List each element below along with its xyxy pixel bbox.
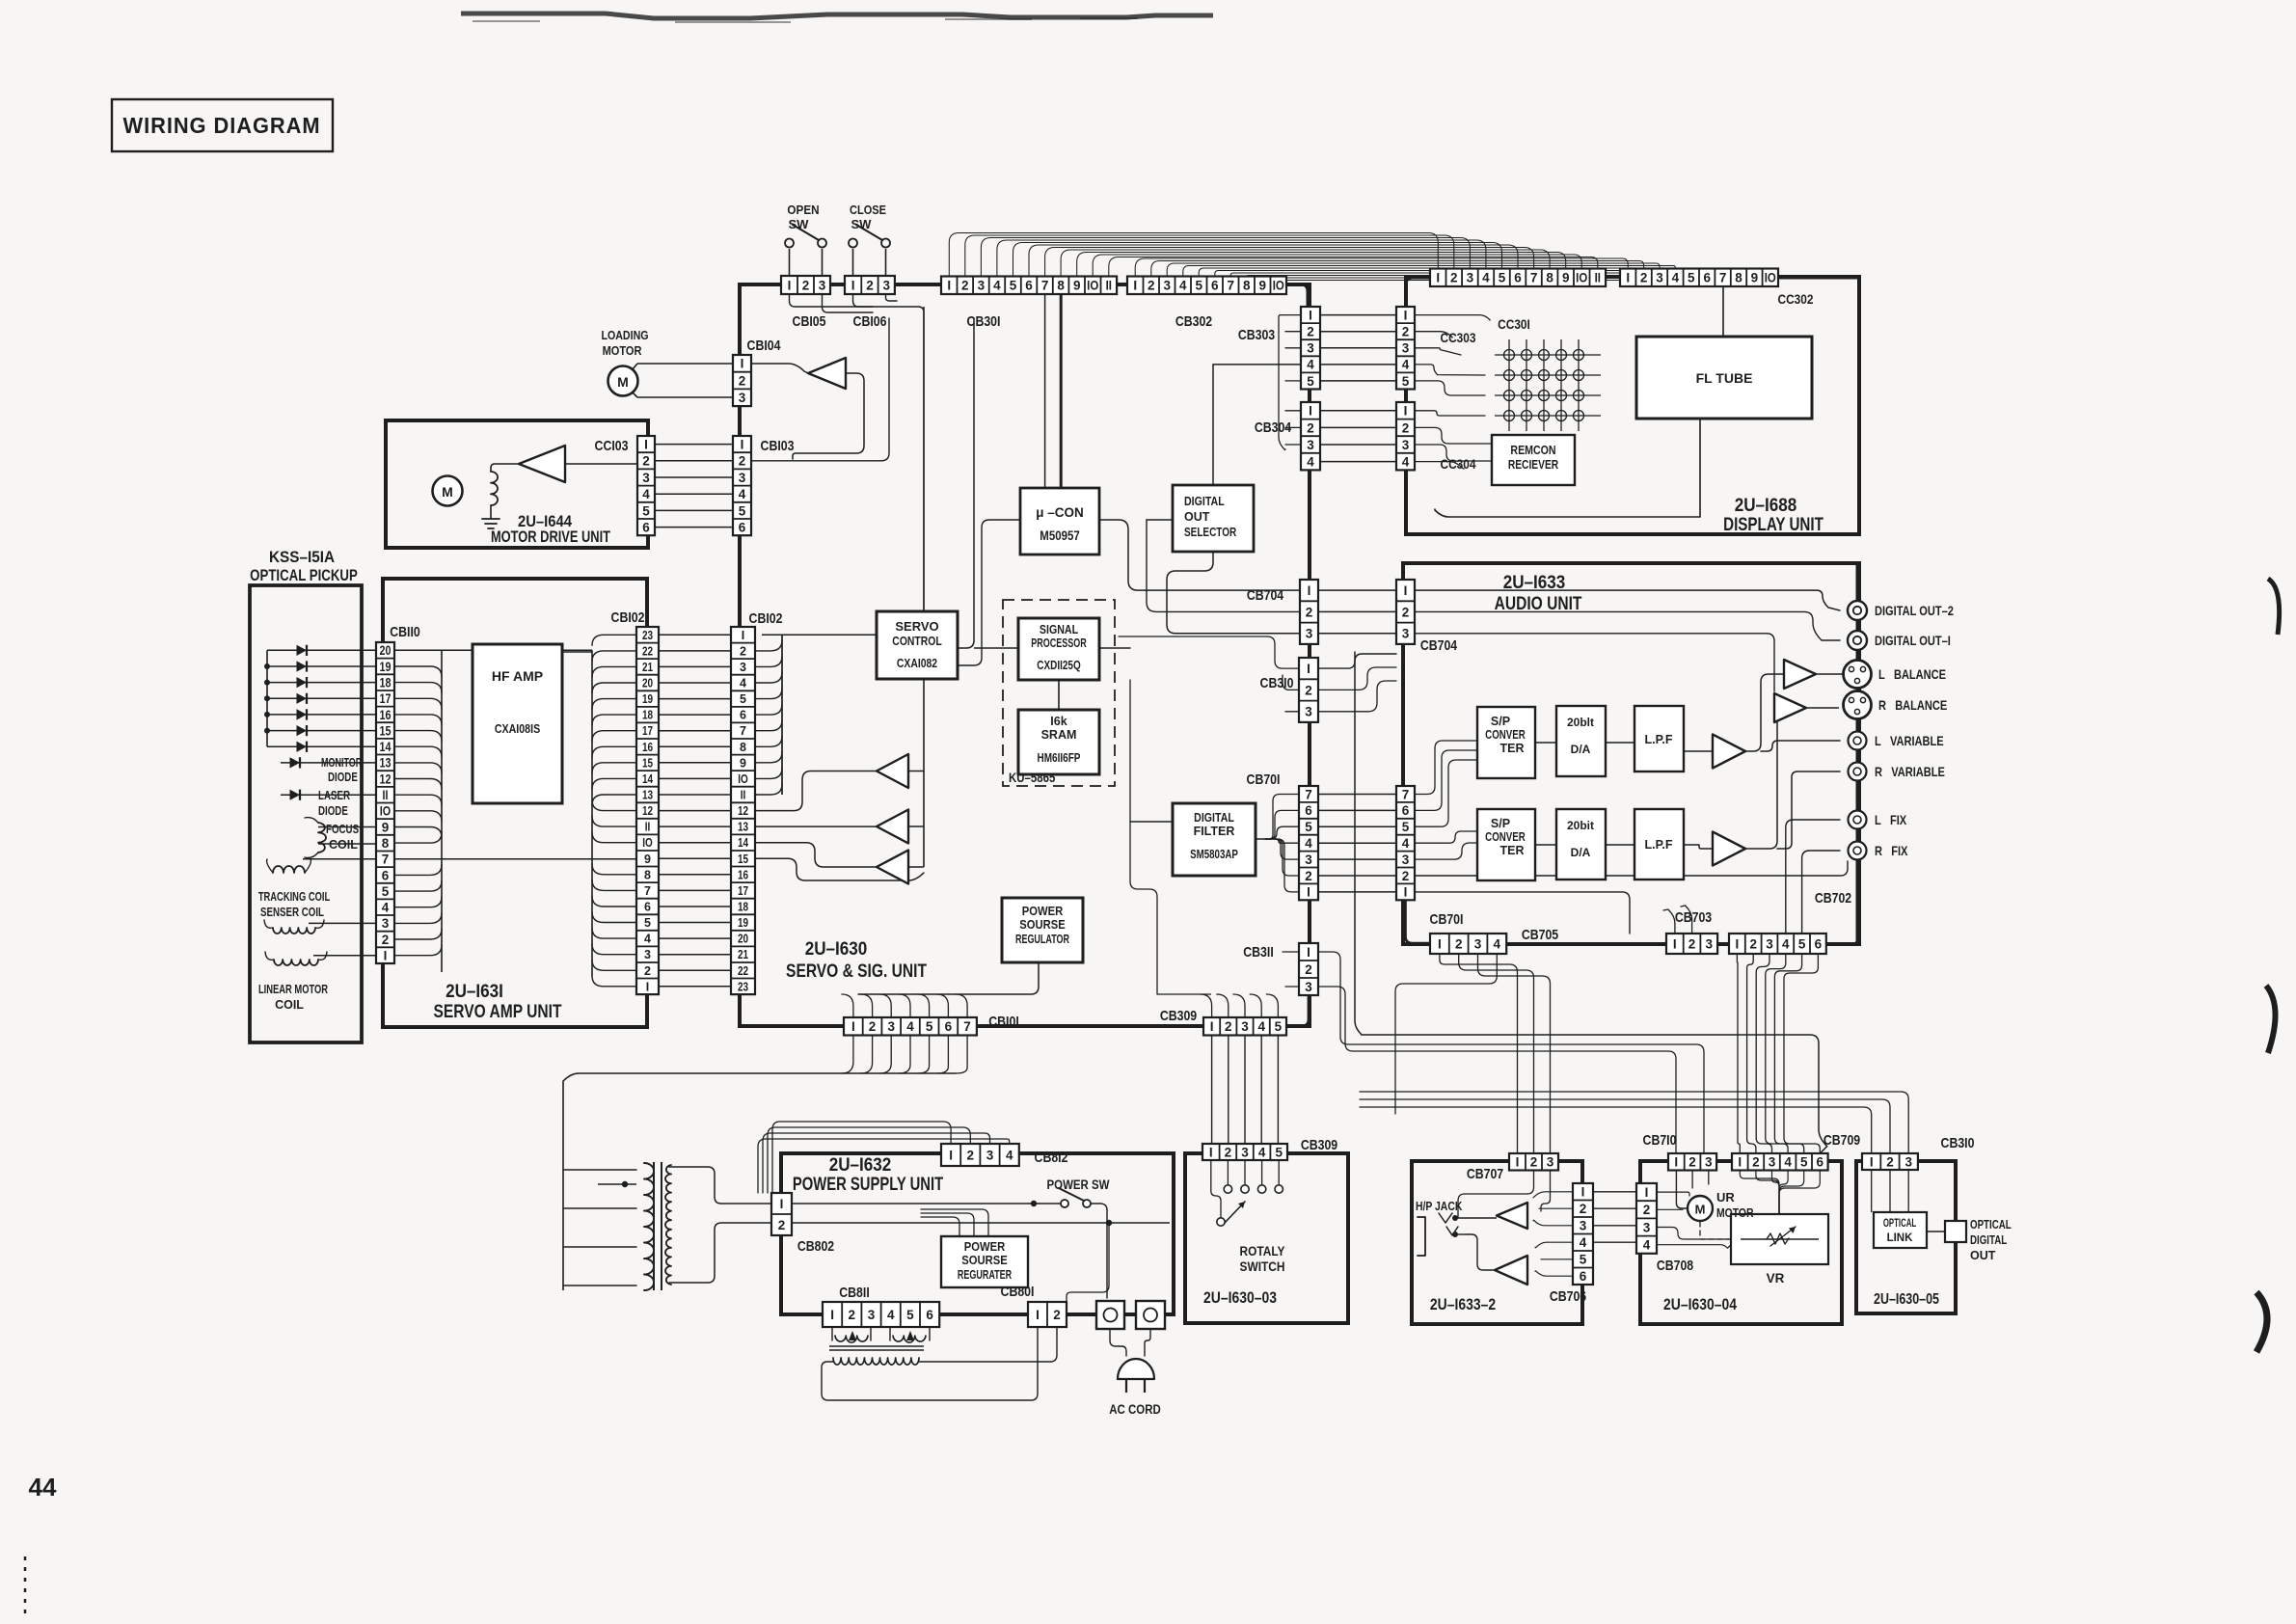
svg-text:DIGITAL OUT–I: DIGITAL OUT–I bbox=[1875, 634, 1951, 648]
svg-text:3: 3 bbox=[978, 279, 986, 293]
svg-text:12: 12 bbox=[379, 771, 391, 786]
svg-text:CB706: CB706 bbox=[1550, 1288, 1586, 1304]
servo triangle 3 bbox=[877, 851, 908, 884]
wire: CB102-right pins 1-11 bus to servo control bbox=[755, 635, 877, 795]
connector CB102 right bbox=[731, 627, 755, 994]
svg-text:6: 6 bbox=[945, 1019, 953, 1034]
svg-text:4: 4 bbox=[642, 487, 650, 501]
unit box 2U-1688 display unit bbox=[1406, 277, 1859, 534]
svg-text:I: I bbox=[741, 357, 744, 371]
svg-text:IO: IO bbox=[1273, 279, 1284, 293]
fuse holder 1 bbox=[1096, 1301, 1124, 1329]
svg-text:CB309: CB309 bbox=[1301, 1137, 1337, 1152]
svg-text:2: 2 bbox=[1580, 1202, 1587, 1216]
svg-text:2: 2 bbox=[1053, 1308, 1061, 1322]
svg-text:POWER: POWER bbox=[964, 1239, 1006, 1254]
wire: CC303 hooks into display bbox=[1415, 315, 1490, 395]
svg-text:DIGITAL: DIGITAL bbox=[1194, 811, 1234, 825]
svg-text:2: 2 bbox=[740, 644, 746, 658]
caption KSS-151A OPTICAL PICKUP bbox=[250, 548, 358, 584]
connector CB801 bbox=[1028, 1302, 1067, 1327]
svg-text:2: 2 bbox=[1306, 605, 1313, 619]
svg-text:IO: IO bbox=[1765, 271, 1776, 285]
connector CB302 bbox=[1127, 277, 1286, 295]
svg-text:CB702: CB702 bbox=[1815, 890, 1851, 906]
svg-text:CXDII25Q: CXDII25Q bbox=[1037, 660, 1081, 672]
wire: CB802 feeds inside power unit bbox=[792, 1201, 1170, 1226]
connector CB702 bbox=[1729, 934, 1826, 954]
svg-text:II: II bbox=[382, 788, 388, 802]
svg-text:CB3II: CB3II bbox=[1243, 944, 1273, 960]
wire: CB705 down-hooks to headphone unit bbox=[1395, 955, 1551, 1153]
svg-text:20bit: 20bit bbox=[1567, 819, 1594, 832]
svg-text:I: I bbox=[1738, 1155, 1742, 1170]
label LOADING MOTOR bbox=[601, 328, 648, 358]
svg-text:MONITOR: MONITOR bbox=[321, 757, 362, 771]
svg-text:19: 19 bbox=[738, 917, 748, 930]
svg-text:LINEAR MOTOR: LINEAR MOTOR bbox=[258, 984, 328, 997]
svg-text:CONVER: CONVER bbox=[1485, 729, 1526, 742]
svg-text:3: 3 bbox=[1769, 1155, 1776, 1170]
svg-text:LASER: LASER bbox=[318, 790, 350, 802]
bottom-left smudge bbox=[24, 1556, 27, 1620]
svg-text:22: 22 bbox=[642, 645, 653, 658]
wire: HF AMP to CB102-left bus bbox=[562, 635, 636, 987]
block VR bbox=[1731, 1214, 1828, 1264]
svg-text:13: 13 bbox=[738, 822, 748, 834]
CC301 lamp matrix grid bbox=[1495, 339, 1601, 431]
svg-text:DIODE: DIODE bbox=[328, 771, 358, 784]
unit box 2U-1633-2 headphone unit bbox=[1412, 1161, 1582, 1324]
svg-text:D/A: D/A bbox=[1571, 743, 1591, 756]
svg-text:5: 5 bbox=[1402, 820, 1410, 834]
wire: transformer secondary to CB802 bbox=[669, 1167, 771, 1283]
wire: CB110 pin7 long line to CB102 pin9 bbox=[394, 858, 636, 860]
connector CB309 lower bbox=[1202, 1144, 1287, 1160]
svg-text:3: 3 bbox=[739, 471, 746, 485]
linear motor coil bbox=[265, 952, 327, 965]
wire: servo control top to servo box edge bbox=[923, 307, 925, 611]
wire: CB110 pin20 to HF AMP top bbox=[394, 649, 592, 651]
wire: CB701-right hooks up to S/P converters bbox=[1406, 741, 1849, 943]
svg-text:3: 3 bbox=[1474, 936, 1482, 951]
block OPTICAL LINK bbox=[1874, 1212, 1927, 1248]
svg-text:I: I bbox=[1307, 662, 1310, 676]
svg-text:3: 3 bbox=[1467, 271, 1474, 285]
caption 2U-1632 POWER SUPPLY UNIT bbox=[793, 1154, 944, 1194]
svg-text:7: 7 bbox=[1530, 271, 1538, 285]
CB811 long winding bbox=[833, 1358, 919, 1365]
svg-text:IO: IO bbox=[738, 773, 748, 786]
svg-text:CB705: CB705 bbox=[1522, 927, 1559, 942]
svg-text:14: 14 bbox=[379, 740, 391, 754]
svg-text:5: 5 bbox=[382, 884, 390, 899]
transformer primary winding bbox=[644, 1163, 654, 1290]
transformer core bbox=[654, 1162, 662, 1290]
connector CB105 bbox=[781, 276, 830, 294]
svg-text:18: 18 bbox=[642, 710, 653, 722]
svg-text:2: 2 bbox=[1307, 325, 1314, 339]
svg-text:IO: IO bbox=[1576, 271, 1587, 285]
svg-text:3: 3 bbox=[1705, 1155, 1713, 1170]
connector CB811 bbox=[823, 1302, 939, 1327]
svg-text:3: 3 bbox=[1656, 271, 1663, 285]
svg-text:2: 2 bbox=[739, 373, 746, 388]
svg-text:2: 2 bbox=[866, 278, 874, 292]
svg-text:3: 3 bbox=[986, 1148, 994, 1162]
svg-text:6: 6 bbox=[1580, 1269, 1587, 1284]
svg-text:21: 21 bbox=[642, 662, 653, 674]
svg-text:CB8I2: CB8I2 bbox=[1035, 1150, 1068, 1165]
svg-text:2: 2 bbox=[1225, 1019, 1232, 1034]
svg-text:5: 5 bbox=[739, 503, 746, 518]
label FOCUS COIL bbox=[326, 824, 360, 852]
svg-text:2: 2 bbox=[1307, 420, 1314, 435]
svg-text:13: 13 bbox=[379, 756, 391, 771]
svg-text:KSS–I5IA: KSS–I5IA bbox=[269, 548, 335, 566]
connector CB310 lower bbox=[1862, 1153, 1918, 1170]
wire: CB811 transformer loops bbox=[822, 1328, 1057, 1400]
svg-text:21: 21 bbox=[738, 949, 748, 961]
svg-text:I: I bbox=[1674, 1155, 1678, 1170]
svg-text:20: 20 bbox=[642, 678, 653, 690]
wire: CB707 into headphone unit bbox=[1458, 1170, 1551, 1217]
svg-text:3: 3 bbox=[739, 391, 746, 405]
wire: CB303/CB304 left-side hook bus to DIGITAL OUT SELECTOR bbox=[1213, 315, 1301, 485]
jack R VARIABLE bbox=[1849, 763, 1867, 781]
svg-text:I: I bbox=[788, 278, 792, 292]
connector CB710 bbox=[1668, 1153, 1716, 1171]
svg-text:8: 8 bbox=[382, 836, 390, 851]
svg-text:M: M bbox=[617, 374, 629, 390]
wire: CB310 bottom upper hooks bbox=[1360, 1092, 1908, 1153]
svg-text:FOCUS: FOCUS bbox=[326, 824, 360, 836]
svg-text:I: I bbox=[949, 1148, 953, 1162]
svg-text:FL TUBE: FL TUBE bbox=[1696, 370, 1753, 386]
svg-text:17: 17 bbox=[379, 691, 391, 706]
svg-text:AUDIO UNIT: AUDIO UNIT bbox=[1495, 593, 1582, 614]
svg-text:2: 2 bbox=[1402, 605, 1410, 619]
svg-text:MOTOR: MOTOR bbox=[603, 343, 642, 358]
svg-text:I: I bbox=[1626, 271, 1630, 285]
svg-text:4: 4 bbox=[1402, 836, 1410, 851]
connector CB101 bbox=[844, 1017, 977, 1036]
wire: DIGITAL OUT SELECTOR bottom to CB704 pin3 bbox=[1167, 552, 1300, 634]
svg-text:14: 14 bbox=[642, 773, 654, 786]
svg-text:2: 2 bbox=[1688, 1155, 1696, 1170]
block HF AMP CXA1081S bbox=[473, 644, 562, 803]
svg-text:2: 2 bbox=[1640, 271, 1648, 285]
svg-text:6: 6 bbox=[1703, 271, 1711, 285]
svg-text:4: 4 bbox=[993, 279, 1001, 293]
svg-text:CC30I: CC30I bbox=[1498, 316, 1530, 332]
wire: CB309 column: servo to rotary switch 5 lines bbox=[1212, 1036, 1279, 1144]
svg-text:4: 4 bbox=[887, 1308, 895, 1322]
svg-text:7: 7 bbox=[1305, 787, 1312, 801]
svg-text:I: I bbox=[1036, 1308, 1040, 1322]
wire: CB102-right pin13 to triangle2 bbox=[755, 826, 877, 827]
caption 2U-1644 MOTOR DRIVE UNIT bbox=[491, 513, 610, 546]
svg-text:5: 5 bbox=[1402, 374, 1410, 389]
svg-text:3: 3 bbox=[1402, 438, 1410, 452]
svg-text:OPTICAL: OPTICAL bbox=[1883, 1218, 1916, 1231]
connector CC301 bbox=[1430, 269, 1606, 287]
svg-text:14: 14 bbox=[738, 837, 749, 850]
wire: signal processor right riser to digital filter bbox=[1099, 648, 1173, 822]
svg-text:CBI05: CBI05 bbox=[793, 313, 826, 329]
svg-text:6: 6 bbox=[382, 868, 390, 882]
svg-text:3: 3 bbox=[1306, 627, 1313, 641]
connector CC304 bbox=[1396, 402, 1415, 470]
wire: signal processor left to servo box bbox=[974, 647, 1018, 649]
svg-text:I: I bbox=[1209, 1145, 1213, 1159]
svg-text:5: 5 bbox=[906, 1308, 914, 1322]
svg-text:μ –CON: μ –CON bbox=[1036, 505, 1084, 520]
power switch POWER SW bbox=[1059, 1188, 1091, 1207]
motor drive M and coil bbox=[433, 464, 520, 528]
svg-text:2: 2 bbox=[849, 1308, 856, 1322]
wire: monitor diode lead bbox=[281, 762, 376, 764]
svg-text:SENSER COIL: SENSER COIL bbox=[260, 907, 324, 919]
svg-text:II: II bbox=[741, 790, 746, 802]
wire: focus coil leads bbox=[318, 827, 376, 845]
rotary wiper arrow bbox=[1225, 1202, 1245, 1223]
tracking coil bbox=[267, 859, 311, 873]
svg-text:CB302: CB302 bbox=[1175, 313, 1212, 329]
svg-text:20blt: 20blt bbox=[1567, 716, 1594, 729]
block S/P CONVERTER 1 bbox=[1477, 707, 1535, 778]
svg-text:15: 15 bbox=[738, 853, 748, 866]
svg-text:CBI03: CBI03 bbox=[761, 438, 795, 453]
svg-text:IO: IO bbox=[642, 837, 653, 850]
block 20bit D/A 2 bbox=[1556, 809, 1606, 880]
caption ROTALY SWITCH bbox=[1240, 1243, 1285, 1274]
potentiometer symbol bbox=[1741, 1238, 1819, 1240]
svg-text:I: I bbox=[1309, 308, 1312, 322]
svg-text:L.P.F: L.P.F bbox=[1645, 838, 1673, 852]
connector CB104 bbox=[733, 355, 751, 406]
svg-text:7: 7 bbox=[644, 884, 651, 898]
svg-text:I: I bbox=[1436, 271, 1440, 285]
svg-text:CBI02: CBI02 bbox=[611, 609, 645, 625]
headphone amp 1 bbox=[1497, 1203, 1527, 1229]
svg-text:I: I bbox=[1307, 885, 1310, 900]
headphone jack symbol bbox=[1418, 1213, 1458, 1256]
svg-text:8: 8 bbox=[740, 741, 746, 754]
svg-text:7: 7 bbox=[740, 724, 746, 738]
jack R FIX bbox=[1849, 842, 1867, 860]
svg-text:4: 4 bbox=[906, 1019, 914, 1034]
wire: UR motor dashed link to VR bbox=[1700, 1222, 1731, 1239]
svg-text:5: 5 bbox=[1800, 1155, 1808, 1170]
wire: CLOSE SW to CB106 bbox=[853, 249, 886, 278]
optical digital out square bbox=[1945, 1221, 1966, 1242]
svg-text:TER: TER bbox=[1500, 742, 1525, 755]
svg-text:I: I bbox=[741, 438, 744, 452]
wire: FIX jack feeds from CB702 bbox=[1786, 820, 1840, 934]
svg-text:5: 5 bbox=[1307, 374, 1314, 389]
connector CB303 bbox=[1301, 307, 1320, 390]
wire: CB701-right pin1 bottom exit to CB705 bbox=[1406, 900, 1431, 943]
svg-text:SERVO AMP UNIT: SERVO AMP UNIT bbox=[434, 1001, 562, 1022]
connector CB701 left bbox=[1299, 786, 1318, 900]
svg-text:OPTICAL: OPTICAL bbox=[1970, 1219, 2012, 1232]
svg-text:POWER SUPPLY UNIT: POWER SUPPLY UNIT bbox=[793, 1174, 944, 1194]
fuse holder 2 bbox=[1136, 1301, 1165, 1329]
svg-text:CB304: CB304 bbox=[1255, 420, 1292, 435]
svg-text:4: 4 bbox=[1494, 936, 1501, 951]
svg-text:SOURSE: SOURSE bbox=[1019, 917, 1066, 932]
svg-text:3: 3 bbox=[1402, 341, 1410, 356]
jack DIGITAL OUT-1 bbox=[1848, 631, 1867, 650]
svg-text:M50957: M50957 bbox=[1040, 528, 1079, 543]
svg-text:REGULATOR: REGULATOR bbox=[1015, 934, 1069, 947]
svg-text:CBI06: CBI06 bbox=[853, 313, 887, 329]
jack L FIX bbox=[1849, 811, 1867, 829]
svg-text:CB802: CB802 bbox=[797, 1238, 834, 1254]
wire: optical link to optical digital out bbox=[1927, 1231, 1945, 1232]
svg-text:SELECTOR: SELECTOR bbox=[1184, 527, 1236, 539]
svg-text:3: 3 bbox=[882, 278, 890, 292]
svg-text:3: 3 bbox=[644, 948, 651, 961]
svg-text:L.P.F: L.P.F bbox=[1645, 733, 1673, 746]
svg-text:M: M bbox=[1695, 1203, 1706, 1217]
svg-text:I: I bbox=[384, 949, 388, 963]
svg-text:5: 5 bbox=[1499, 271, 1506, 285]
svg-text:6: 6 bbox=[642, 521, 650, 535]
photodiode array 7 diodes bbox=[297, 645, 308, 752]
svg-text:16: 16 bbox=[738, 869, 748, 881]
wire: CB102-right pin15 under-loop to triangle3 base bbox=[755, 858, 924, 880]
svg-text:IO: IO bbox=[1087, 279, 1098, 293]
connector CB707 bbox=[1509, 1153, 1558, 1171]
svg-text:8: 8 bbox=[1735, 271, 1742, 285]
UR motor M bbox=[1688, 1196, 1713, 1221]
svg-text:7: 7 bbox=[963, 1019, 971, 1034]
svg-text:CONVER: CONVER bbox=[1485, 831, 1526, 844]
svg-text:HF AMP: HF AMP bbox=[492, 668, 543, 684]
svg-text:3: 3 bbox=[1402, 853, 1410, 867]
svg-text:MOTOR: MOTOR bbox=[1716, 1206, 1754, 1220]
svg-text:CB303: CB303 bbox=[1238, 327, 1275, 342]
svg-text:6: 6 bbox=[1305, 803, 1312, 818]
svg-text:II: II bbox=[1595, 271, 1601, 285]
svg-text:3: 3 bbox=[819, 278, 826, 292]
svg-text:7: 7 bbox=[1041, 279, 1049, 293]
svg-text:I: I bbox=[1438, 936, 1442, 951]
svg-text:22: 22 bbox=[738, 965, 748, 978]
svg-text:4: 4 bbox=[1402, 455, 1410, 470]
wire: linear motor coil lead bbox=[313, 955, 376, 957]
svg-text:VR: VR bbox=[1767, 1271, 1785, 1286]
svg-text:CB709: CB709 bbox=[1823, 1132, 1860, 1148]
svg-text:2: 2 bbox=[382, 933, 390, 947]
wire: top harness CB301-CC301 and CB302-CC302 bundle bbox=[949, 233, 1770, 281]
svg-text:8: 8 bbox=[1546, 271, 1553, 285]
svg-text:DIODE: DIODE bbox=[318, 805, 348, 818]
label UR MOTOR bbox=[1716, 1190, 1754, 1220]
block POWER SOURSE REGURATER bbox=[941, 1236, 1028, 1287]
WIRING DIAGRAM title box bbox=[112, 99, 333, 151]
wire: CB301 to u-CON microcontroller bbox=[1045, 295, 1062, 490]
connector CB704 right bbox=[1396, 580, 1415, 644]
caption 2U-1633 AUDIO UNIT bbox=[1495, 572, 1582, 613]
servo triangle 1 bbox=[877, 754, 908, 788]
svg-text:15: 15 bbox=[379, 723, 391, 738]
block POWER SOURSE REGULATOR bbox=[1002, 898, 1083, 962]
svg-text:I: I bbox=[830, 1308, 834, 1322]
svg-text:2: 2 bbox=[1305, 683, 1312, 697]
label TRACKING COIL SENSER COIL bbox=[258, 891, 331, 920]
wire: CB704 ribbon 3 lines bbox=[1318, 590, 1396, 634]
wire: HP jack to amps bbox=[1452, 1215, 1497, 1270]
svg-text:2: 2 bbox=[644, 964, 651, 978]
svg-text:4: 4 bbox=[1305, 836, 1312, 851]
svg-text:2: 2 bbox=[778, 1218, 786, 1232]
wire: CB709 lower hooks to VR bbox=[1740, 1170, 1820, 1214]
unit box KSS-151A optical pickup bbox=[250, 585, 362, 1042]
wire: CB309 upper hooks into servo unit bbox=[1130, 680, 1278, 1017]
wire: CB310 right side risers to audio unit bbox=[1318, 654, 1396, 668]
svg-text:2: 2 bbox=[961, 279, 969, 293]
svg-text:5: 5 bbox=[1798, 936, 1806, 951]
svg-text:2U–I633: 2U–I633 bbox=[1503, 572, 1566, 592]
svg-text:3: 3 bbox=[1305, 853, 1312, 867]
wire: servo control triangles feed bbox=[755, 679, 924, 880]
svg-text:6: 6 bbox=[926, 1308, 933, 1322]
svg-text:3: 3 bbox=[1241, 1019, 1249, 1034]
unit box 2U-1644 motor drive unit bbox=[386, 420, 648, 548]
wire: CB704-right to digital out jacks bbox=[1415, 590, 1840, 691]
svg-text:I6k: I6k bbox=[1050, 715, 1067, 728]
svg-text:7: 7 bbox=[1402, 787, 1410, 801]
svg-text:9: 9 bbox=[740, 756, 746, 770]
svg-text:4: 4 bbox=[1257, 1019, 1265, 1034]
unit box 2U-1630-05 optical out unit bbox=[1856, 1161, 1956, 1313]
svg-text:CB309: CB309 bbox=[1160, 1008, 1197, 1023]
wire: rotary switch contacts bbox=[1211, 1161, 1283, 1226]
svg-text:I: I bbox=[1307, 945, 1310, 960]
svg-text:2: 2 bbox=[1530, 1155, 1538, 1170]
svg-text:6: 6 bbox=[1402, 803, 1410, 818]
wire: CC302 to display top right corner bbox=[1778, 277, 1856, 280]
wire: CB310 bottom to optical link bbox=[1872, 1170, 1909, 1212]
wire: CB102-right pin12 to triangle1 bbox=[755, 771, 877, 811]
svg-text:REMCON: REMCON bbox=[1510, 444, 1555, 457]
svg-text:5: 5 bbox=[1580, 1253, 1587, 1267]
svg-text:3: 3 bbox=[740, 661, 746, 674]
wire: CB103 pin2 into servo unit bbox=[751, 318, 889, 461]
svg-text:3: 3 bbox=[1904, 1154, 1912, 1169]
unit box 2U-1630 servo and sig unit bbox=[740, 284, 1310, 1026]
svg-text:9: 9 bbox=[1562, 271, 1570, 285]
monitor diode bbox=[290, 757, 301, 768]
switch OPEN SW bbox=[785, 225, 826, 248]
audio variable amp R bbox=[1713, 832, 1745, 866]
wire: balance amps to XLR jacks bbox=[1806, 674, 1844, 708]
block LPF 2 bbox=[1634, 809, 1684, 880]
svg-text:CB703: CB703 bbox=[1675, 909, 1712, 925]
svg-text:4: 4 bbox=[740, 677, 746, 690]
svg-text:I: I bbox=[1404, 308, 1408, 322]
svg-text:23: 23 bbox=[642, 630, 653, 642]
svg-text:SM5803AP: SM5803AP bbox=[1190, 849, 1238, 861]
loading motor M bbox=[608, 364, 638, 397]
svg-text:CC303: CC303 bbox=[1440, 330, 1475, 345]
connector CB110 bbox=[376, 642, 394, 963]
svg-text:POWER SW: POWER SW bbox=[1047, 1177, 1110, 1192]
svg-text:19: 19 bbox=[642, 693, 653, 706]
